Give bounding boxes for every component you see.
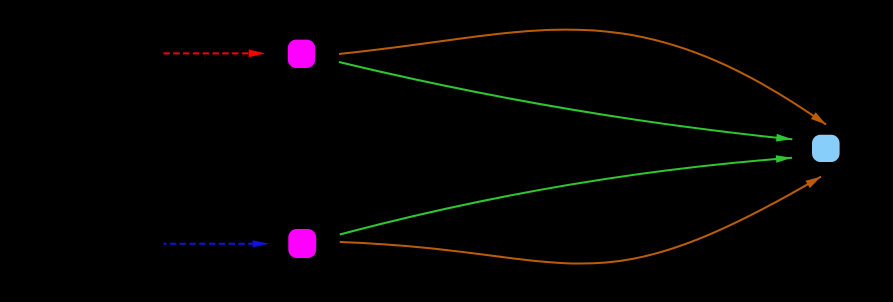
node I1 (magenta input neuron) [288, 40, 315, 68]
arrowhead of blue input arrow [253, 240, 270, 247]
wire: orange curved edge node I2 to node O (bottom arc) [340, 177, 821, 264]
node I2 (magenta input neuron) [288, 229, 316, 258]
arrowhead of orange bottom edge [806, 177, 822, 189]
arrowhead of green lower edge [776, 155, 792, 163]
arrowhead of green upper edge [776, 134, 792, 142]
wire: orange curved edge node I1 to node O (top arc) [339, 30, 826, 125]
wire: green edge node I2 to node O [340, 158, 792, 235]
arrowhead of orange top edge [811, 112, 826, 124]
blue dashed input arrow to node I2 [164, 243, 254, 245]
red dashed input arrow to node I1 [164, 52, 250, 54]
node O (light blue output neuron) [812, 135, 840, 162]
wire: green edge node I1 to node O [339, 62, 792, 139]
arrowhead of red input arrow [249, 50, 265, 58]
